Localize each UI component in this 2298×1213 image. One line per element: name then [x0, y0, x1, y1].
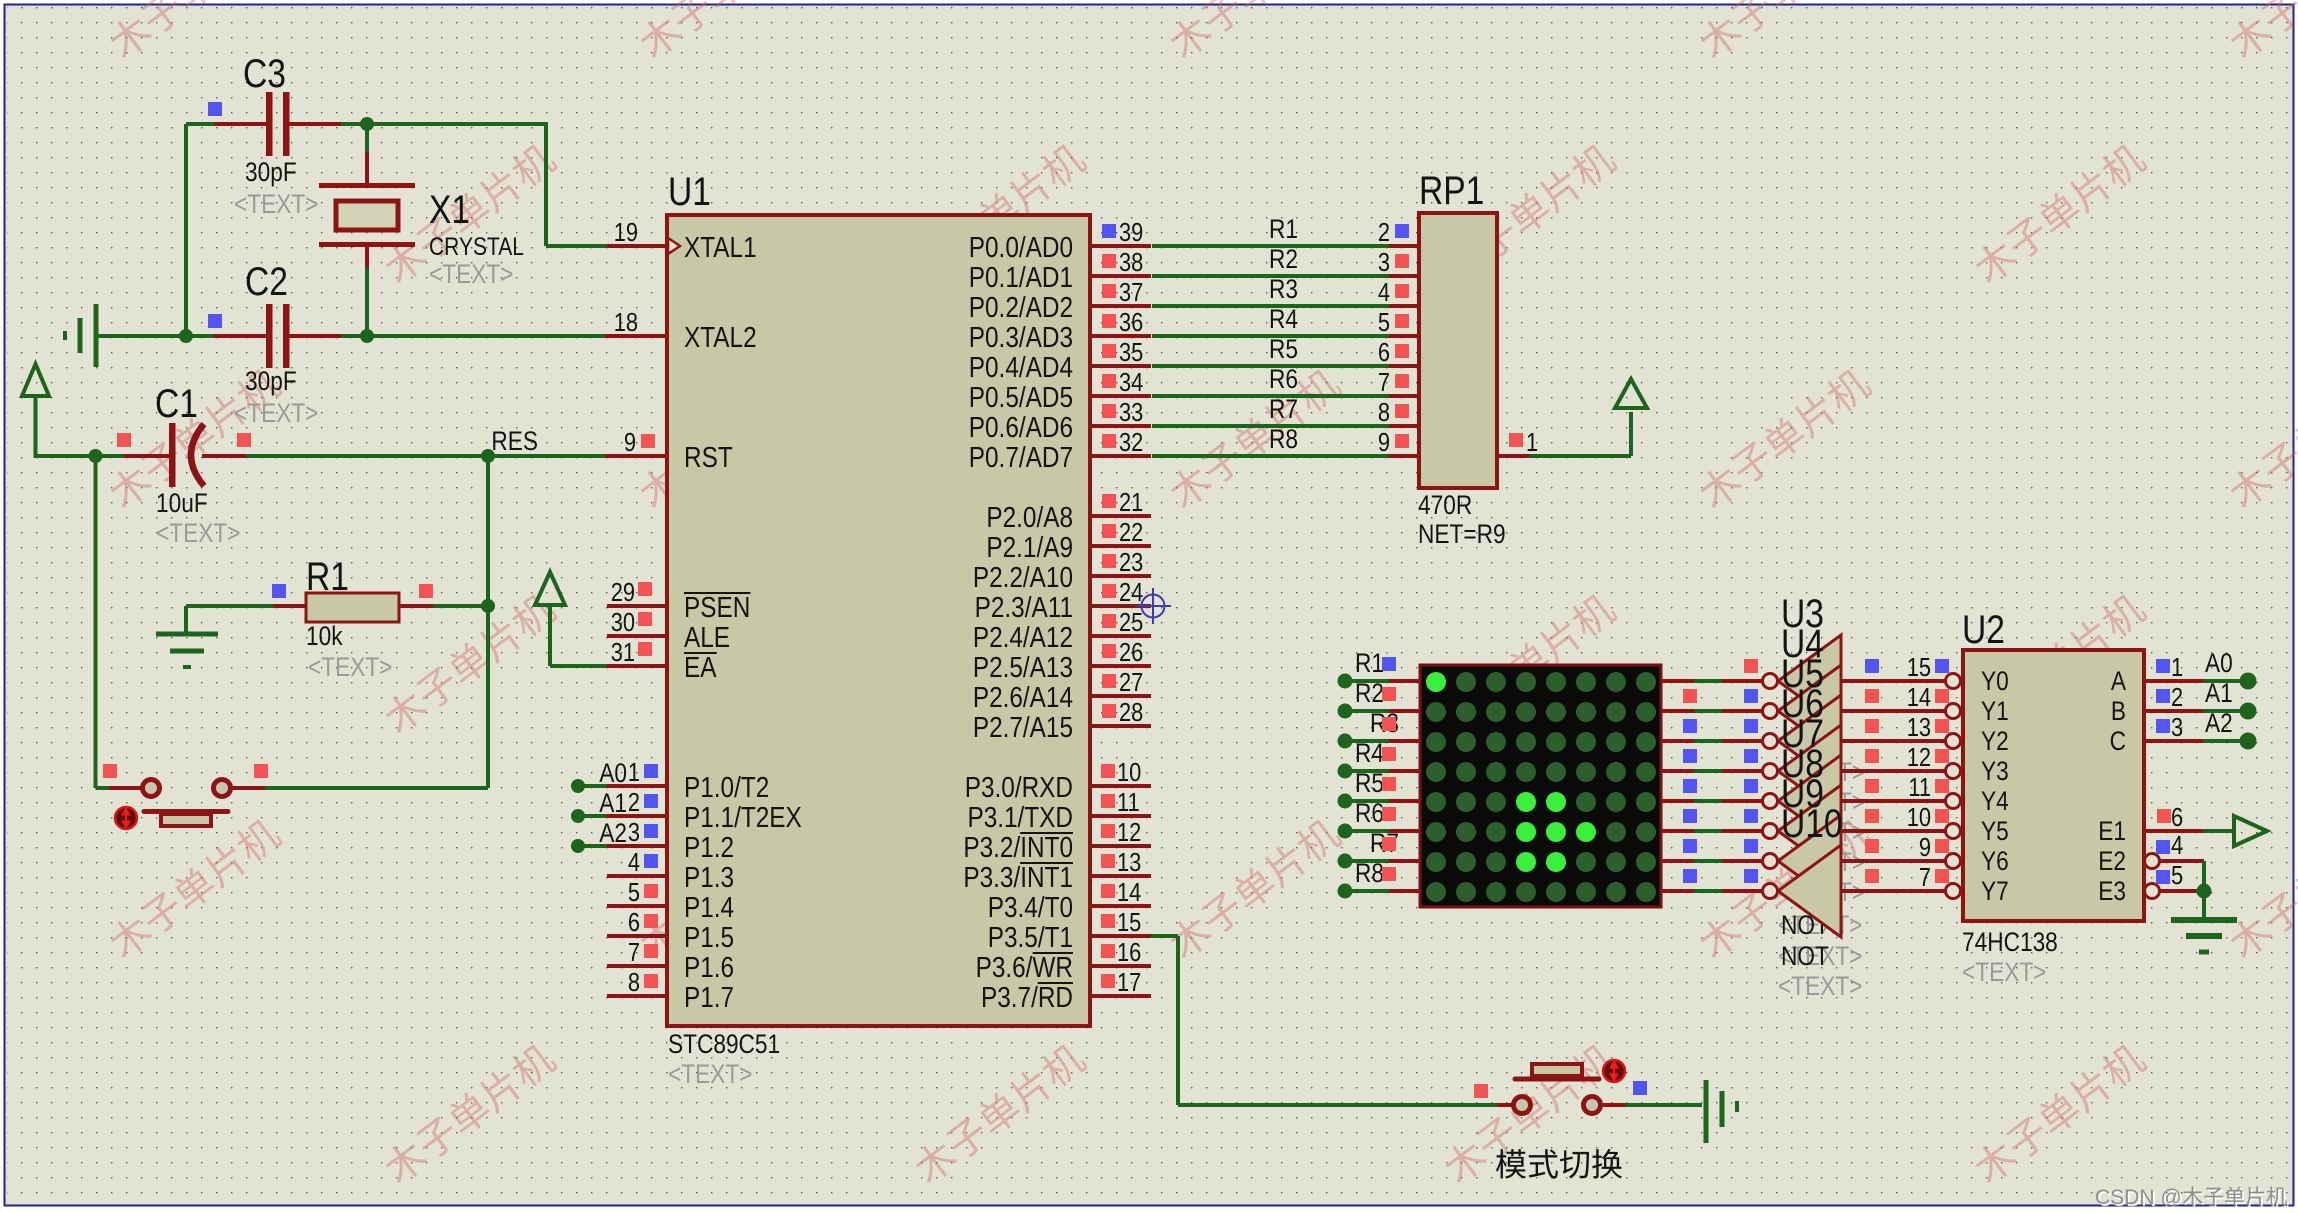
svg-text:R1: R1 — [1269, 214, 1298, 244]
svg-text:P0.4/AD4: P0.4/AD4 — [969, 351, 1073, 383]
svg-text:17: 17 — [1117, 968, 1141, 997]
svg-text:RST: RST — [684, 441, 733, 473]
svg-text:P3.6/WR: P3.6/WR — [976, 951, 1073, 983]
svg-text:R7: R7 — [1269, 394, 1298, 424]
svg-text:P2.3/A11: P2.3/A11 — [975, 591, 1073, 623]
svg-text:10: 10 — [1907, 803, 1931, 832]
svg-text:E2: E2 — [2098, 846, 2126, 876]
svg-text:P2.7/A15: P2.7/A15 — [973, 711, 1073, 743]
svg-text:4: 4 — [1378, 278, 1390, 307]
svg-text:9: 9 — [624, 428, 636, 457]
svg-text:6: 6 — [628, 908, 640, 937]
svg-text:C1: C1 — [155, 381, 198, 425]
svg-text:P3.0/RXD: P3.0/RXD — [965, 771, 1073, 803]
svg-text:6: 6 — [1378, 338, 1390, 367]
svg-text:19: 19 — [614, 218, 638, 247]
svg-text:37: 37 — [1119, 278, 1143, 307]
svg-text:1: 1 — [628, 758, 640, 787]
svg-text:<TEXT>: <TEXT> — [668, 1059, 752, 1089]
svg-text:7: 7 — [1919, 863, 1931, 892]
svg-text:18: 18 — [614, 308, 638, 337]
svg-text:P1.6: P1.6 — [684, 951, 734, 983]
svg-text:E1: E1 — [2098, 816, 2126, 846]
svg-text:ALE: ALE — [684, 621, 730, 653]
svg-text:R2: R2 — [1269, 244, 1298, 274]
svg-text:30pF: 30pF — [245, 157, 297, 187]
svg-text:P2.5/A13: P2.5/A13 — [973, 651, 1073, 683]
svg-text:R8: R8 — [1269, 424, 1298, 454]
svg-text:21: 21 — [1119, 488, 1143, 517]
svg-text:EA: EA — [684, 651, 717, 683]
svg-text:P0.1/AD1: P0.1/AD1 — [969, 261, 1073, 293]
svg-text:P1.0/T2: P1.0/T2 — [684, 771, 769, 803]
svg-text:R4: R4 — [1269, 304, 1298, 334]
svg-text:R2: R2 — [1355, 678, 1384, 708]
svg-text:P1.4: P1.4 — [684, 891, 734, 923]
svg-text:CSDN @: CSDN @ — [2095, 1186, 2182, 1209]
svg-text:<TEXT>: <TEXT> — [308, 652, 392, 682]
svg-text:15: 15 — [1117, 908, 1141, 937]
svg-text:P1.7: P1.7 — [684, 981, 734, 1013]
svg-text:RES: RES — [491, 426, 538, 456]
svg-text:7: 7 — [628, 938, 640, 967]
svg-text:A2: A2 — [599, 818, 627, 848]
svg-text:P3.5/T1: P3.5/T1 — [988, 921, 1073, 953]
svg-text:33: 33 — [1119, 398, 1143, 427]
svg-text:Y7: Y7 — [1981, 876, 2009, 906]
svg-text:29: 29 — [611, 578, 635, 607]
svg-text:10: 10 — [1117, 758, 1141, 787]
svg-text:13: 13 — [1117, 848, 1141, 877]
svg-text:23: 23 — [1119, 548, 1143, 577]
svg-text:P3.3/INT1: P3.3/INT1 — [963, 861, 1073, 893]
svg-text:28: 28 — [1119, 698, 1143, 727]
svg-text:A1: A1 — [599, 788, 627, 818]
svg-text:4: 4 — [628, 848, 640, 877]
svg-text:13: 13 — [1907, 713, 1931, 742]
svg-text:470R: 470R — [1418, 490, 1472, 520]
svg-text:12: 12 — [1907, 743, 1931, 772]
svg-text:R6: R6 — [1355, 798, 1384, 828]
svg-text:Y5: Y5 — [1981, 816, 2009, 846]
svg-text:8: 8 — [628, 968, 640, 997]
svg-text:6: 6 — [2171, 803, 2183, 832]
svg-text:P1.3: P1.3 — [684, 861, 734, 893]
svg-text:32: 32 — [1119, 428, 1143, 457]
svg-text:R1: R1 — [1355, 648, 1384, 678]
svg-text:10k: 10k — [306, 621, 343, 651]
svg-text:8: 8 — [1378, 398, 1390, 427]
svg-text:2: 2 — [628, 788, 640, 817]
svg-text:34: 34 — [1119, 368, 1143, 397]
svg-text:38: 38 — [1119, 248, 1143, 277]
svg-text:Y4: Y4 — [1981, 786, 2009, 816]
svg-text:15: 15 — [1907, 653, 1931, 682]
svg-text:16: 16 — [1117, 938, 1141, 967]
svg-text:36: 36 — [1119, 308, 1143, 337]
svg-text:24: 24 — [1119, 578, 1143, 607]
svg-text:P0.2/AD2: P0.2/AD2 — [969, 291, 1073, 323]
svg-text:A2: A2 — [2205, 708, 2233, 738]
svg-text:1: 1 — [1526, 428, 1538, 457]
svg-text:P2.2/A10: P2.2/A10 — [973, 561, 1073, 593]
svg-text:B: B — [2111, 696, 2126, 726]
svg-text:14: 14 — [1117, 878, 1141, 907]
svg-text:P1.5: P1.5 — [684, 921, 734, 953]
svg-text:R8: R8 — [1355, 858, 1384, 888]
svg-text:5: 5 — [1378, 308, 1390, 337]
svg-text:1: 1 — [2171, 653, 2183, 682]
svg-text:R1: R1 — [306, 554, 349, 598]
svg-text:11: 11 — [1908, 773, 1931, 802]
svg-text:P2.0/A8: P2.0/A8 — [986, 501, 1073, 533]
svg-text:P3.2/INT0: P3.2/INT0 — [963, 831, 1073, 863]
svg-text:22: 22 — [1119, 518, 1143, 547]
svg-text:5: 5 — [628, 878, 640, 907]
svg-text:CRYSTAL: CRYSTAL — [429, 232, 524, 260]
svg-text:Y2: Y2 — [1981, 726, 2009, 756]
svg-text:P2.6/A14: P2.6/A14 — [973, 681, 1073, 713]
svg-text:C3: C3 — [243, 51, 286, 95]
svg-text:4: 4 — [2171, 831, 2183, 860]
svg-text:3: 3 — [2171, 713, 2183, 742]
svg-text:P0.0/AD0: P0.0/AD0 — [969, 231, 1073, 263]
svg-text:XTAL2: XTAL2 — [684, 321, 757, 353]
svg-text:XTAL1: XTAL1 — [684, 231, 757, 263]
svg-text:P1.2: P1.2 — [684, 831, 734, 863]
svg-text:C: C — [2110, 726, 2126, 756]
svg-text:<TEXT>: <TEXT> — [156, 518, 240, 548]
svg-text:P0.3/AD3: P0.3/AD3 — [969, 321, 1073, 353]
svg-text:<TEXT>: <TEXT> — [234, 398, 318, 428]
svg-text:RP1: RP1 — [1419, 168, 1484, 212]
svg-text:9: 9 — [1919, 833, 1931, 862]
svg-text:9: 9 — [1378, 428, 1390, 457]
svg-text:30: 30 — [611, 608, 635, 637]
svg-text:P2.1/A9: P2.1/A9 — [986, 531, 1073, 563]
svg-text:Y1: Y1 — [1981, 696, 2009, 726]
svg-text:P0.7/AD7: P0.7/AD7 — [969, 441, 1073, 473]
svg-text:3: 3 — [1378, 248, 1390, 277]
svg-text:P1.1/T2EX: P1.1/T2EX — [684, 801, 802, 833]
svg-text:PSEN: PSEN — [684, 591, 750, 623]
svg-text:25: 25 — [1119, 608, 1143, 637]
svg-text:<TEXT>: <TEXT> — [429, 259, 513, 289]
svg-text:P3.4/T0: P3.4/T0 — [988, 891, 1073, 923]
svg-text:A1: A1 — [2205, 678, 2233, 708]
svg-text:U2: U2 — [1962, 607, 2005, 651]
svg-text:<TEXT>: <TEXT> — [1778, 971, 1862, 1001]
svg-text:C2: C2 — [245, 259, 288, 303]
svg-text:7: 7 — [1378, 368, 1390, 397]
svg-text:39: 39 — [1119, 218, 1143, 247]
svg-text:14: 14 — [1907, 683, 1931, 712]
svg-text:Y3: Y3 — [1981, 756, 2009, 786]
svg-text:R3: R3 — [1269, 274, 1298, 304]
svg-text:R5: R5 — [1269, 334, 1298, 364]
svg-text:U10: U10 — [1781, 801, 1843, 845]
svg-text:P0.6/AD6: P0.6/AD6 — [969, 411, 1073, 443]
svg-text:STC89C51: STC89C51 — [668, 1029, 780, 1059]
svg-text:A: A — [2111, 666, 2126, 696]
svg-text:2: 2 — [2171, 683, 2183, 712]
svg-text:2: 2 — [1378, 218, 1390, 247]
svg-text:<TEXT>: <TEXT> — [1962, 957, 2046, 987]
svg-text:<TEXT>: <TEXT> — [234, 189, 318, 219]
svg-text:74HC138: 74HC138 — [1962, 927, 2058, 957]
svg-text:R4: R4 — [1355, 738, 1384, 768]
svg-text:10uF: 10uF — [156, 488, 208, 518]
svg-text:NOT: NOT — [1781, 941, 1829, 971]
svg-text:5: 5 — [2171, 861, 2183, 890]
svg-text:3: 3 — [628, 818, 640, 847]
svg-text:R6: R6 — [1269, 364, 1298, 394]
svg-text:A0: A0 — [2205, 648, 2233, 678]
svg-text:27: 27 — [1119, 668, 1143, 697]
svg-text:E3: E3 — [2098, 876, 2126, 906]
svg-text:Y6: Y6 — [1981, 846, 2009, 876]
svg-text:35: 35 — [1119, 338, 1143, 367]
svg-text:31: 31 — [611, 638, 635, 667]
svg-text:Y0: Y0 — [1981, 666, 2009, 696]
svg-text:P2.4/A12: P2.4/A12 — [973, 621, 1073, 653]
svg-text:26: 26 — [1119, 638, 1143, 667]
svg-text:P3.7/RD: P3.7/RD — [981, 981, 1073, 1013]
svg-text:X1: X1 — [429, 187, 470, 231]
svg-text:NET=R9: NET=R9 — [1418, 519, 1506, 549]
svg-text:P0.5/AD5: P0.5/AD5 — [969, 381, 1073, 413]
svg-text:11: 11 — [1117, 788, 1140, 817]
svg-text:U1: U1 — [668, 169, 711, 213]
svg-text:30pF: 30pF — [245, 366, 297, 396]
svg-text:A0: A0 — [599, 758, 627, 788]
svg-text:R5: R5 — [1355, 768, 1384, 798]
svg-text:12: 12 — [1117, 818, 1141, 847]
svg-text:P3.1/TXD: P3.1/TXD — [967, 801, 1073, 833]
